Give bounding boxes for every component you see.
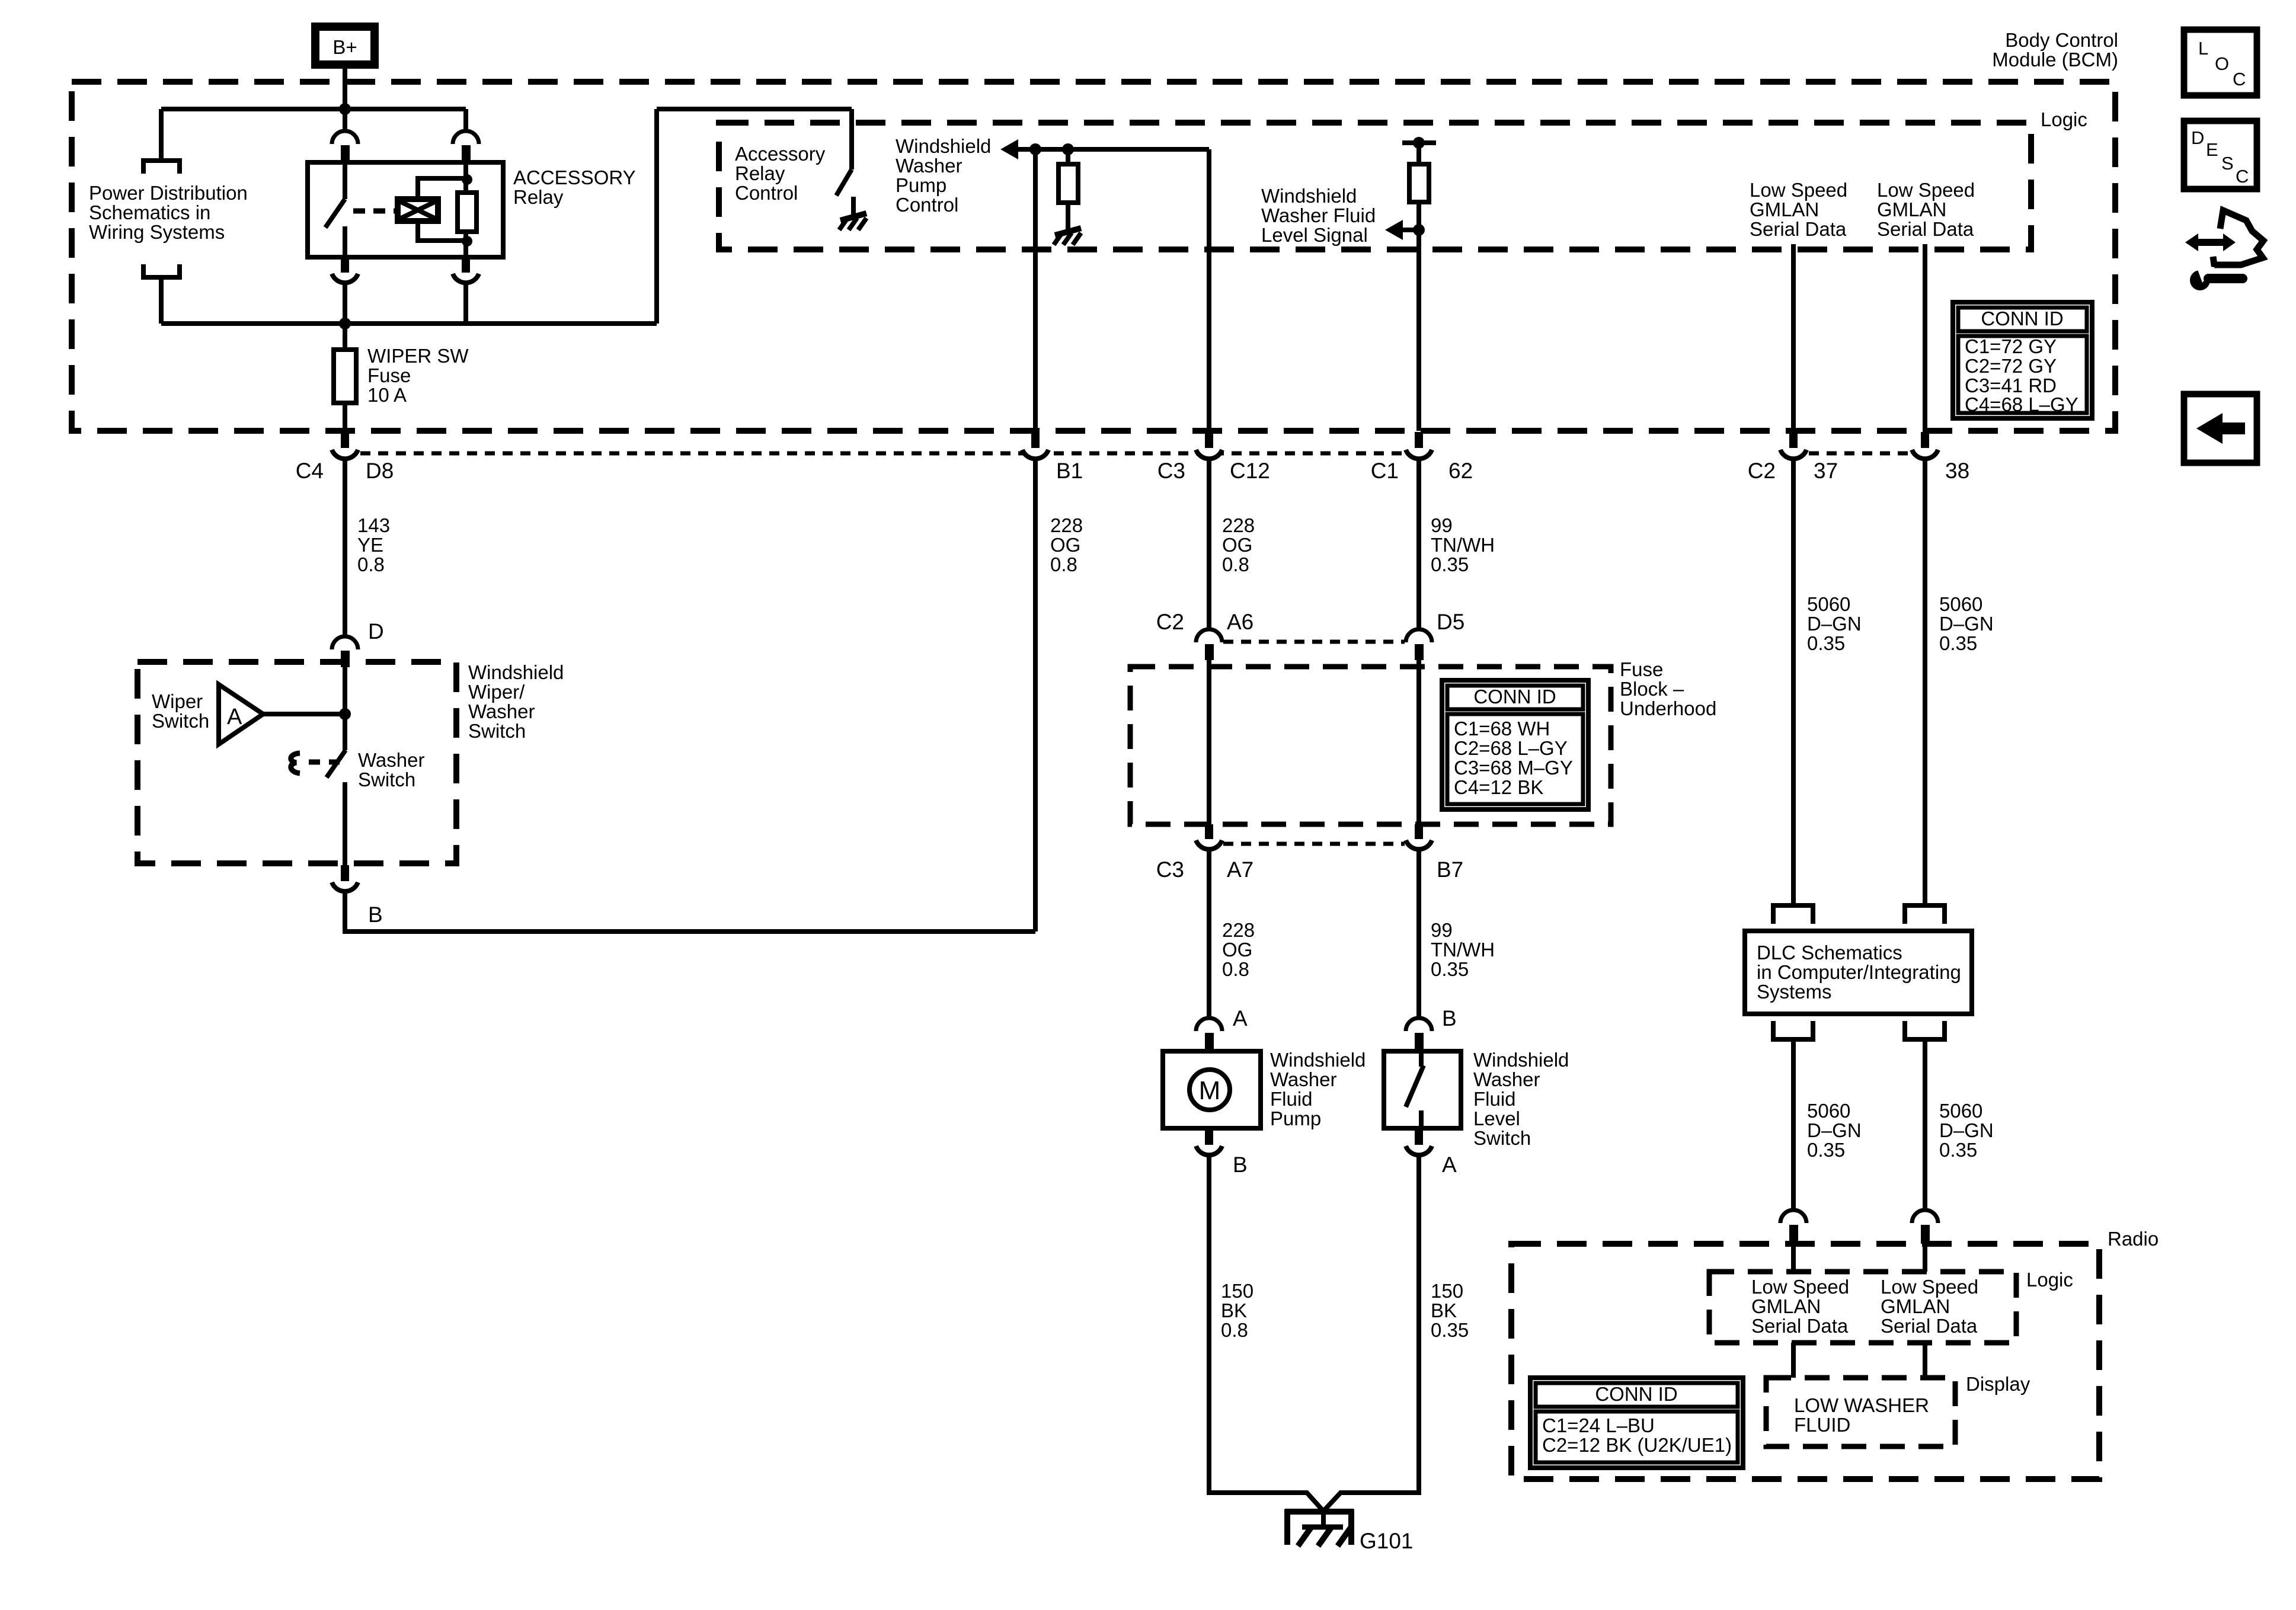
wire 5060 upper left (1791, 459, 1796, 904)
connector A level switch (1406, 1128, 1457, 1177)
wire drop to relay control switch (849, 109, 854, 169)
Low Speed GMLAN Serial Data label left (1750, 179, 1847, 240)
svg-text:S: S (2221, 153, 2234, 174)
svg-text:Wiper: Wiper (152, 690, 203, 712)
wire label 99 TN/WH 0.35 (1431, 514, 1495, 575)
svg-text:0.35: 0.35 (1939, 632, 1977, 654)
svg-text:M: M (1199, 1076, 1221, 1105)
svg-text:0.8: 0.8 (1221, 1319, 1248, 1341)
svg-text:0.35: 0.35 (1807, 632, 1845, 654)
node dot wiper (339, 708, 351, 720)
wire 99 below fuse block (1416, 850, 1421, 1018)
connector B level switch (1406, 1006, 1457, 1051)
inline dotted A6-D5 (1223, 640, 1405, 644)
relay switch contact (325, 162, 345, 257)
svg-text:5060: 5060 (1939, 593, 1982, 615)
svg-text:C2=72 GY: C2=72 GY (1965, 355, 2057, 377)
wires logic to display (1791, 1343, 1796, 1378)
svg-text:TN/WH: TN/WH (1431, 534, 1495, 556)
svg-text:Low Speed: Low Speed (1881, 1276, 1978, 1298)
Logic dashed box (719, 123, 2031, 249)
svg-text:C12: C12 (1230, 459, 1270, 483)
wires into radio logic (1791, 1244, 1796, 1272)
inline dotted A7-B7 (1223, 842, 1405, 846)
level switch label (1473, 1049, 1569, 1149)
wiper switch triangle A (219, 684, 263, 744)
svg-text:Serial Data: Serial Data (1751, 1315, 1849, 1337)
Fuse Block label (1620, 658, 1716, 719)
wire to accessory relay control (657, 107, 852, 111)
wire label 5060 D-GN 0.35 (1807, 593, 1862, 654)
svg-text:B: B (1233, 1153, 1248, 1177)
svg-text:TN/WH: TN/WH (1431, 939, 1495, 961)
wire 228 OG drop C12 (1207, 459, 1211, 629)
Windshield Washer Fluid Pump motor (1163, 1051, 1261, 1128)
svg-text:OG: OG (1222, 534, 1252, 556)
accessory relay control ground (839, 197, 866, 230)
svg-text:C1=24 L–BU: C1=24 L–BU (1542, 1414, 1655, 1436)
svg-text:5060: 5060 (1939, 1100, 1982, 1122)
connector A pump (1196, 1006, 1248, 1051)
washer switch cam (291, 753, 340, 773)
svg-text:C1: C1 (1371, 459, 1399, 483)
ground internal pump control (1054, 228, 1081, 245)
connector C4/D8 (296, 432, 394, 483)
wire from bracket to bus (159, 277, 164, 324)
CONN ID table fuse block (1442, 680, 1588, 809)
svg-text:Windshield: Windshield (896, 135, 991, 157)
CONN ID table radio (1530, 1378, 1743, 1468)
connector into radio right (1912, 1210, 1938, 1244)
svg-text:GMLAN: GMLAN (1750, 199, 1819, 220)
svg-text:A7: A7 (1227, 857, 1253, 882)
icon DESC (2184, 121, 2257, 189)
svg-text:Washer: Washer (468, 700, 535, 722)
connector C3/A7 (1156, 824, 1254, 882)
svg-text:Relay: Relay (735, 162, 785, 184)
wire ground merge (1209, 1493, 1323, 1510)
connector B wiper (332, 865, 383, 927)
svg-text:Serial Data: Serial Data (1877, 218, 1974, 240)
node dot at fuse tap (339, 318, 351, 329)
svg-text:0.8: 0.8 (1222, 958, 1249, 980)
wire label 228 OG 0.8 (1222, 514, 1255, 575)
wire lower bus (161, 321, 657, 326)
svg-text:L: L (2198, 38, 2208, 59)
connector 38 (1912, 432, 1969, 483)
wire label 5060 D-GN 0.35 (1939, 593, 1994, 654)
svg-text:E: E (2206, 139, 2218, 160)
Windshield Washer Fluid Level Signal label (1261, 185, 1376, 246)
svg-text:Switch: Switch (358, 769, 415, 790)
svg-text:B+: B+ (332, 36, 357, 58)
svg-text:Low Speed: Low Speed (1750, 179, 1847, 201)
svg-text:Low Speed: Low Speed (1877, 179, 1975, 201)
svg-text:Wiring Systems: Wiring Systems (89, 221, 225, 243)
wire pump control (1017, 147, 1209, 152)
svg-text:B7: B7 (1437, 857, 1463, 882)
svg-text:37: 37 (1814, 459, 1838, 483)
svg-text:38: 38 (1945, 459, 1969, 483)
svg-text:Fluid: Fluid (1270, 1088, 1313, 1110)
svg-text:Logic: Logic (2041, 108, 2087, 130)
svg-text:Block –: Block – (1620, 678, 1684, 700)
svg-text:Body Control: Body Control (2005, 29, 2118, 51)
wire B1 drop (1033, 149, 1038, 431)
wire label 99 TN/WH 0.35 (1431, 919, 1495, 980)
wire horizontal feed (161, 107, 466, 111)
svg-text:C1=72 GY: C1=72 GY (1965, 335, 2057, 357)
svg-text:C2=68 L–GY: C2=68 L–GY (1454, 737, 1568, 759)
svg-text:Washer: Washer (358, 749, 424, 771)
svg-text:BK: BK (1221, 1299, 1247, 1321)
wire label 150 BK 0.8 (1221, 1280, 1253, 1341)
box label (468, 661, 564, 742)
svg-text:C: C (2236, 166, 2249, 187)
wire 5060 lower left (1791, 1039, 1796, 1211)
svg-text:A6: A6 (1227, 610, 1253, 634)
svg-text:228: 228 (1050, 514, 1083, 536)
connector into radio left (1780, 1210, 1806, 1244)
svg-text:228: 228 (1222, 919, 1255, 941)
svg-text:Serial Data: Serial Data (1881, 1315, 1978, 1337)
svg-text:Washer: Washer (1473, 1068, 1540, 1090)
page link bracket bottom (143, 264, 180, 277)
svg-text:0.8: 0.8 (357, 553, 385, 575)
Radio logic dashed box (1709, 1272, 2016, 1343)
svg-text:WIPER SW: WIPER SW (367, 345, 469, 367)
svg-text:GMLAN: GMLAN (1881, 1295, 1950, 1317)
svg-text:B: B (1442, 1006, 1457, 1030)
wire 99 TN/WH drop (1416, 459, 1421, 629)
svg-text:D: D (368, 619, 384, 644)
wire triangle to node (263, 712, 345, 716)
ACCESSORY relay top-right connector (453, 109, 479, 161)
svg-text:Windshield: Windshield (1473, 1049, 1569, 1071)
connector D (332, 619, 384, 667)
svg-text:DLC Schematics: DLC Schematics (1757, 942, 1902, 964)
wire 228 below fuse block (1207, 850, 1211, 1018)
svg-text:Low Speed: Low Speed (1751, 1276, 1849, 1298)
svg-text:Schematics in: Schematics in (89, 201, 210, 223)
icon vehicle communication (2185, 210, 2263, 290)
svg-text:Control: Control (735, 182, 798, 204)
svg-text:0.8: 0.8 (1050, 553, 1077, 575)
relay bottom-left connector (332, 257, 358, 324)
connector C2/A6 (1156, 610, 1254, 660)
svg-text:Level: Level (1473, 1108, 1520, 1129)
svg-text:B: B (368, 902, 383, 927)
svg-text:OG: OG (1050, 534, 1080, 556)
svg-text:Radio: Radio (2108, 1228, 2159, 1250)
GMLAN label radio left (1751, 1276, 1849, 1337)
pump control arrow (1000, 139, 1018, 159)
svg-text:228: 228 (1222, 514, 1255, 536)
svg-text:Accessory: Accessory (735, 143, 826, 165)
svg-text:Relay: Relay (513, 186, 564, 208)
svg-text:C1=68 WH: C1=68 WH (1454, 718, 1550, 740)
svg-text:0.35: 0.35 (1807, 1139, 1845, 1161)
wire label 5060 D-GN 0.35 (1807, 1100, 1862, 1161)
connector D5 (1406, 610, 1464, 660)
svg-text:C2: C2 (1156, 610, 1184, 634)
svg-text:D–GN: D–GN (1807, 1119, 1862, 1141)
icon back arrow (2184, 394, 2257, 463)
svg-text:BK: BK (1431, 1299, 1457, 1321)
svg-text:Windshield: Windshield (468, 661, 564, 683)
resistor pull-up level signal (1409, 164, 1429, 202)
relay K box (308, 162, 503, 257)
level signal arrow (1385, 220, 1403, 240)
Low Speed GMLAN Serial Data label right (1877, 179, 1975, 240)
connector C1/62 (1371, 432, 1473, 483)
wire label 150 BK 0.35 (1431, 1280, 1469, 1341)
wire riser right (654, 109, 659, 324)
resistor pull-down (1059, 149, 1078, 231)
svg-text:D–GN: D–GN (1939, 613, 1994, 635)
svg-text:Logic: Logic (2026, 1269, 2073, 1291)
svg-text:C2=12 BK (U2K/UE1): C2=12 BK (U2K/UE1) (1542, 1434, 1732, 1456)
svg-text:Systems: Systems (1757, 981, 1832, 1003)
svg-text:Power Distribution: Power Distribution (89, 182, 248, 204)
svg-text:D: D (2191, 127, 2204, 148)
wire 5060 upper right (1923, 459, 1927, 904)
svg-text:O: O (2215, 53, 2229, 74)
wire label 228 OG 0.8 (1050, 514, 1083, 575)
svg-text:Pump: Pump (1270, 1108, 1321, 1129)
svg-text:Serial Data: Serial Data (1750, 218, 1847, 240)
BCM label (1992, 29, 2118, 71)
svg-text:C3: C3 (1156, 857, 1184, 882)
connector B pump (1196, 1128, 1248, 1177)
CONN ID table BCM (1953, 302, 2092, 418)
svg-text:Windshield: Windshield (1270, 1049, 1366, 1071)
svg-text:Fluid: Fluid (1473, 1088, 1516, 1110)
wire left drop to power distribution (159, 109, 164, 161)
svg-text:GMLAN: GMLAN (1751, 1295, 1821, 1317)
svg-text:Display: Display (1966, 1373, 2030, 1395)
wire arrow to node (1402, 228, 1419, 232)
wire B+ stem (343, 65, 347, 109)
svg-text:Washer Fluid: Washer Fluid (1261, 204, 1376, 226)
svg-text:Switch: Switch (468, 720, 526, 742)
svg-text:Switch: Switch (152, 710, 209, 732)
Power Distribution note (89, 182, 248, 243)
svg-text:LOW WASHER: LOW WASHER (1794, 1394, 1929, 1416)
svg-text:OG: OG (1222, 939, 1252, 961)
DLC Schematics box (1745, 931, 1972, 1014)
svg-text:CONN ID: CONN ID (1473, 686, 1556, 708)
connector C3/C12 (1157, 432, 1270, 483)
node dot resistor tap (1062, 143, 1074, 155)
svg-text:Level Signal: Level Signal (1261, 224, 1368, 246)
wire GMLAN 38 drop (1923, 244, 1927, 431)
svg-text:A: A (1233, 1006, 1248, 1030)
wire 5060 lower right (1923, 1039, 1927, 1211)
wire GMLAN 37 drop (1791, 244, 1796, 431)
ground G101 (1285, 1509, 1414, 1553)
svg-text:Washer: Washer (896, 155, 962, 177)
accessory relay control switch blade (836, 169, 852, 196)
wire label 5060 D-GN 0.35 (1939, 1100, 1994, 1161)
Fuse WIPER SW (334, 324, 469, 431)
ACCESSORY Relay label (513, 167, 636, 208)
svg-text:G101: G101 (1360, 1529, 1414, 1553)
svg-text:10 A: 10 A (367, 384, 407, 406)
svg-text:C4: C4 (296, 459, 324, 483)
relay bottom-right connector (453, 257, 479, 324)
page bracket DLC top right (1905, 905, 1945, 924)
Windshield Wiper/Washer Switch dashed box (137, 662, 456, 863)
B+ power terminal (315, 27, 375, 65)
svg-text:C: C (2233, 69, 2246, 89)
svg-text:D–GN: D–GN (1939, 1119, 1994, 1141)
svg-text:Washer: Washer (1270, 1068, 1336, 1090)
page link bracket top (143, 161, 180, 174)
svg-text:YE: YE (357, 534, 383, 556)
svg-text:0.35: 0.35 (1431, 1319, 1469, 1341)
wire label 228 OG 0.8 (1222, 919, 1255, 980)
svg-text:99: 99 (1431, 919, 1453, 941)
page bracket DLC top left (1773, 905, 1813, 924)
svg-text:62: 62 (1448, 459, 1473, 483)
Wiper Switch label (152, 690, 209, 732)
pump label (1270, 1049, 1366, 1129)
connector B1 (1022, 432, 1083, 483)
svg-text:0.35: 0.35 (1431, 553, 1469, 575)
Windshield Washer Fluid Level Switch (1384, 1051, 1461, 1128)
svg-text:A: A (227, 705, 242, 729)
connector C2/37 (1748, 432, 1838, 483)
svg-text:C3: C3 (1157, 459, 1185, 483)
svg-text:Module (BCM): Module (BCM) (1992, 49, 2118, 71)
Body Control Module (BCM) dashed box (72, 82, 2115, 431)
node junction dot (339, 103, 351, 115)
Accessory Relay Control label (735, 143, 826, 204)
svg-text:CONN ID: CONN ID (1981, 308, 2063, 329)
svg-text:D8: D8 (366, 459, 394, 483)
svg-text:in Computer/Integrating: in Computer/Integrating (1757, 961, 1961, 983)
wires through fuse block (1207, 660, 1211, 824)
svg-text:A: A (1442, 1153, 1457, 1177)
Windshield Washer Pump Control label (896, 135, 991, 216)
wire label 143 YE 0.8 (357, 514, 390, 575)
GMLAN label radio right (1881, 1276, 1978, 1337)
node dot B1 tap (1029, 143, 1041, 155)
svg-text:Pump: Pump (896, 174, 946, 196)
icon LOC (2184, 30, 2257, 95)
svg-text:B1: B1 (1056, 459, 1083, 483)
wire C12 drop (1207, 149, 1211, 431)
svg-text:C4=68 L–GY: C4=68 L–GY (1965, 393, 2078, 415)
svg-text:CONN ID: CONN ID (1595, 1383, 1677, 1405)
svg-text:Control: Control (896, 194, 958, 216)
wire 150 BK 0.35 (1416, 1156, 1421, 1495)
Display dashed box (1766, 1378, 1955, 1446)
svg-text:ACCESSORY: ACCESSORY (513, 167, 636, 188)
wire B down and across (345, 892, 1035, 932)
inline connector dotted line (360, 452, 1405, 456)
relay linkage dashes (353, 209, 398, 214)
relay coil resistor (458, 162, 477, 257)
svg-text:0.8: 0.8 (1222, 553, 1249, 575)
svg-text:D–GN: D–GN (1807, 613, 1862, 635)
svg-text:143: 143 (357, 514, 390, 536)
svg-text:GMLAN: GMLAN (1877, 199, 1946, 220)
wire level signal drop (1416, 202, 1421, 431)
svg-text:Switch: Switch (1473, 1127, 1531, 1149)
washer switch contact (327, 667, 346, 865)
svg-text:150: 150 (1221, 1280, 1253, 1302)
svg-text:Underhood: Underhood (1620, 697, 1716, 719)
svg-text:C3=68 M–GY: C3=68 M–GY (1454, 757, 1573, 779)
svg-text:5060: 5060 (1807, 1100, 1850, 1122)
svg-text:99: 99 (1431, 514, 1453, 536)
svg-text:D5: D5 (1437, 610, 1464, 634)
LOW WASHER FLUID text (1794, 1394, 1929, 1436)
page bracket DLC bottom left (1773, 1021, 1813, 1039)
node dot level signal (1413, 224, 1425, 236)
ACCESSORY relay top-left connector (332, 109, 358, 161)
svg-text:Windshield: Windshield (1261, 185, 1357, 207)
svg-text:Fuse: Fuse (1620, 658, 1663, 680)
svg-text:C4=12 BK: C4=12 BK (1454, 776, 1543, 798)
Washer Switch label (358, 749, 424, 790)
level signal supply stub (1402, 137, 1436, 164)
inline connector dotted line right (1809, 452, 1910, 456)
svg-text:150: 150 (1431, 1280, 1463, 1302)
svg-text:0.35: 0.35 (1939, 1139, 1977, 1161)
wire 150 BK 0.8 (1207, 1156, 1211, 1495)
svg-text:FLUID: FLUID (1794, 1414, 1850, 1436)
Radio dashed box (1511, 1244, 2099, 1479)
svg-text:Wiper/: Wiper/ (468, 681, 525, 703)
relay coil (398, 174, 472, 247)
page bracket DLC bottom right (1905, 1021, 1945, 1039)
svg-text:5060: 5060 (1807, 593, 1850, 615)
svg-text:0.35: 0.35 (1431, 958, 1469, 980)
connector B7 (1406, 824, 1463, 882)
svg-text:C2: C2 (1748, 459, 1776, 483)
wire 228 OG drop B1 (1033, 459, 1038, 932)
svg-text:Fuse: Fuse (367, 364, 411, 386)
Fuse Block Underhood dashed box (1130, 667, 1611, 824)
wire 143 YE drop (343, 459, 347, 638)
